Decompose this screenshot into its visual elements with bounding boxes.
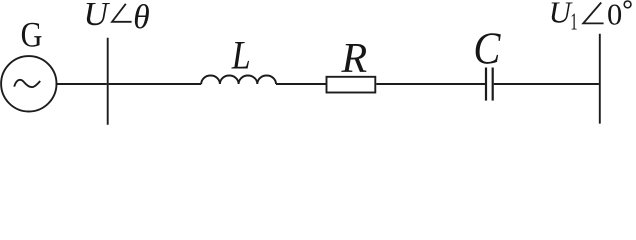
- svg-text:C: C: [473, 25, 500, 74]
- svg-text:G: G: [21, 16, 43, 55]
- svg-text:1: 1: [570, 9, 577, 36]
- svg-text:0: 0: [607, 0, 622, 32]
- svg-text:U: U: [84, 0, 111, 33]
- svg-text:U: U: [549, 0, 573, 29]
- svg-text:L: L: [231, 34, 251, 78]
- svg-text:R: R: [341, 36, 368, 82]
- svg-text:θ: θ: [133, 0, 149, 36]
